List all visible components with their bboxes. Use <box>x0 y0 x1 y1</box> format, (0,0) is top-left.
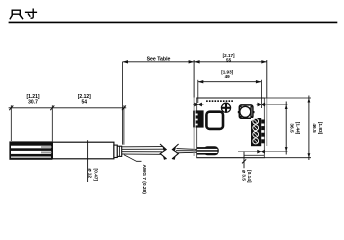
dimension 30.7 / 54 line <box>9 105 127 145</box>
svg-text:[1.83]: [1.83] <box>317 122 323 135</box>
Ø12 label (rotated) <box>87 169 99 182</box>
svg-text:30.7: 30.7 <box>28 100 38 106</box>
cable break symbol 1 <box>160 144 167 160</box>
probe end nut <box>114 145 122 157</box>
svg-text:⌀ 12: ⌀ 12 <box>87 169 93 179</box>
wire segment 1 <box>122 147 164 155</box>
terminal block <box>251 118 265 146</box>
cable break symbol 2 <box>172 144 179 160</box>
See Table dimension <box>123 60 195 145</box>
svg-text:See Table: See Table <box>147 56 171 62</box>
left connector J1 <box>193 110 203 127</box>
svg-text:AWG 7 (0.28): AWG 7 (0.28) <box>141 165 147 195</box>
svg-text:[1.44]: [1.44] <box>295 122 301 135</box>
mounting hole bottom-right (diamond marker) <box>238 150 288 154</box>
dimension 55 <box>194 60 267 156</box>
dimension 46.5 (outer right) <box>308 96 311 161</box>
extension lines <box>10 105 12 141</box>
small part at board bottom <box>244 154 264 156</box>
svg-text:[0.14]: [0.14] <box>246 170 252 183</box>
dimension 36.5 (inner right) <box>285 102 288 155</box>
title 尺寸 (drawn as strokes) <box>10 9 36 19</box>
svg-text:54: 54 <box>82 100 88 106</box>
wire segment 2 into board <box>176 149 203 153</box>
mounting hole top-right (diamond marker) <box>257 103 288 107</box>
svg-text:⌀ 3.5: ⌀ 3.5 <box>240 170 246 181</box>
probe body <box>52 142 114 159</box>
dim ticks <box>9 105 126 110</box>
horizontal rule under title <box>9 21 338 23</box>
board top/bottom extension lines to right dims <box>264 97 311 99</box>
buzzer / trimmer component <box>238 105 255 118</box>
svg-text:[0.47]: [0.47] <box>93 169 99 182</box>
AWG leader line <box>124 155 142 162</box>
Ø12 leader line <box>87 140 89 182</box>
svg-text:49: 49 <box>225 74 231 79</box>
cable gland / slot <box>197 146 219 155</box>
AWG label (rotated) <box>141 165 147 195</box>
screw head <box>221 103 230 112</box>
probe filter cap <box>9 141 52 159</box>
svg-text:36.5: 36.5 <box>289 123 295 133</box>
board outline <box>197 98 265 158</box>
IC U1 <box>206 112 223 129</box>
dimension 49 <box>198 80 262 108</box>
svg-text:55: 55 <box>226 57 232 62</box>
Ø3.5 leader <box>242 152 246 169</box>
Ø3.5 label (rotated) <box>240 170 252 183</box>
svg-text:46.5: 46.5 <box>311 123 317 133</box>
mounting hole top-left (diamond marker) <box>193 103 204 107</box>
pin header dots <box>206 100 233 102</box>
